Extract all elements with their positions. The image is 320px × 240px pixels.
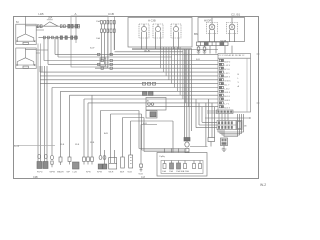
svg-text:B-L 7: B-L 7 [224, 84, 230, 86]
svg-text:C-8: C-8 [141, 176, 146, 179]
svg-text:15A 30A 20A: 15A 30A 20A [176, 170, 189, 173]
svg-text:15A: 15A [169, 170, 173, 173]
svg-text:L-B 2: L-B 2 [224, 88, 230, 90]
svg-text:C2 C1 B2 A1 B1 2E 3B 1C: C2 C1 B2 A1 B1 2E 3B 1C [219, 54, 245, 57]
svg-text:W-B: W-B [60, 144, 65, 146]
svg-text:W-B: W-B [90, 142, 95, 144]
svg-text:FLPD: FLPD [37, 172, 43, 174]
svg-text:G-W 5: G-W 5 [224, 81, 231, 83]
svg-text:1J: 1J [205, 49, 207, 51]
svg-text:B-W 2: B-W 2 [224, 61, 231, 63]
svg-text:10A: 10A [96, 37, 100, 40]
svg-text:L-R 1: L-R 1 [224, 73, 230, 75]
svg-text:C2B: C2B [33, 176, 38, 179]
svg-text:B-G 3: B-G 3 [224, 108, 230, 110]
svg-text:C2, B1: C2, B1 [231, 13, 241, 17]
svg-text:W-2: W-2 [260, 183, 266, 187]
svg-text:10A: 10A [162, 170, 166, 173]
svg-text:30A: 30A [48, 17, 53, 20]
svg-text:L-Y 1: L-Y 1 [224, 104, 230, 106]
svg-text:W-B: W-B [128, 172, 133, 174]
svg-text:B-Y 6: B-Y 6 [224, 69, 230, 71]
svg-text:W-B: W-B [139, 174, 144, 176]
svg-text:W-B: W-B [144, 49, 150, 53]
svg-text:BLR: BLR [120, 172, 125, 174]
svg-text:B-R 3: B-R 3 [224, 77, 230, 79]
svg-text:WFW: WFW [50, 172, 56, 174]
svg-text:B6: B6 [194, 32, 198, 36]
svg-text:H/OP: H/OP [204, 19, 211, 23]
svg-text:C1B: C1B [108, 12, 114, 16]
svg-text:W-B: W-B [75, 144, 80, 146]
svg-text:L-W 4: L-W 4 [224, 65, 231, 67]
svg-text:FqBq: FqBq [160, 156, 166, 158]
svg-text:LQS: LQS [73, 172, 78, 174]
svg-text:W-B: W-B [221, 39, 227, 43]
svg-text:WASH: WASH [57, 171, 64, 174]
svg-text:L-4: L-4 [15, 144, 20, 148]
svg-text:WLR: WLR [109, 172, 114, 174]
svg-text:B-R: B-R [196, 59, 200, 61]
svg-text:G-R 4: G-R 4 [224, 92, 231, 94]
svg-text:KPN: KPN [86, 172, 91, 174]
svg-text:I-1B: I-1B [38, 12, 44, 16]
svg-text:15A: 15A [96, 20, 100, 23]
svg-text:A: A [75, 12, 77, 16]
svg-text:G-B 8: G-B 8 [224, 100, 230, 102]
svg-text:B-R: B-R [143, 123, 147, 125]
svg-text:A C/B: A C/B [148, 19, 156, 23]
svg-text:B-O 6: B-O 6 [224, 96, 230, 98]
